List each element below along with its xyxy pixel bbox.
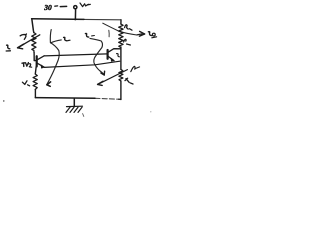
svg-text:30: 30 xyxy=(43,3,52,12)
